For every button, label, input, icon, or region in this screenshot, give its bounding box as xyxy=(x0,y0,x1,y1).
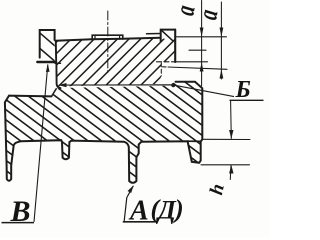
svg-text:В: В xyxy=(10,195,31,228)
svg-text:Д: Д xyxy=(156,196,177,225)
central boss on top surface xyxy=(92,35,123,39)
vertical centerline of boss (dash-dot) xyxy=(107,11,109,73)
arrowhead of leader B pointing left xyxy=(59,83,67,87)
section hatching of upper hub part (45deg slash lines) xyxy=(0,30,219,100)
dimension line of gap "a" no.2 xyxy=(220,2,222,79)
step connector between flange surface and hub wall xyxy=(52,89,57,97)
extension line from step plane (solid part) xyxy=(176,61,208,63)
underline of label A(D) xyxy=(123,221,158,223)
dimension line of gap "a" no.1 xyxy=(201,1,203,87)
leader line of label B (to step wall) xyxy=(59,85,234,97)
arrowhead down, dimension h xyxy=(229,130,233,139)
arrowhead of leader V pointing up xyxy=(46,64,50,72)
arrowhead of leader A(D) pointing up-right xyxy=(128,185,134,193)
hidden edge below right tab xyxy=(160,63,162,76)
extension line from step plane (dashed part over hub) xyxy=(157,61,177,63)
bend dot on leader of label B xyxy=(171,83,175,87)
groove lip bar under left tab xyxy=(37,61,55,63)
dimension line of tooth height h xyxy=(230,101,231,180)
groove lip step xyxy=(55,62,61,64)
svg-text:а: а xyxy=(193,7,224,22)
svg-text:): ) xyxy=(173,195,184,224)
underline of label V xyxy=(2,222,35,224)
right retaining ring tab outline xyxy=(161,30,175,42)
section hatching of lower flange part (backslash lines) xyxy=(0,70,320,232)
boss end ticks xyxy=(95,35,120,39)
arrowhead up, dimension a no.1 xyxy=(200,62,204,71)
arrowhead down, dimension a no.2 xyxy=(220,28,224,37)
extension line from lower ledge (solid part) xyxy=(168,67,227,69)
svg-text:h: h xyxy=(206,182,229,197)
bottom surface line across right tooth root xyxy=(188,140,201,142)
section hatching of left retaining ring tab xyxy=(39,33,55,62)
arrowhead up, dimension h xyxy=(229,165,233,174)
lower flange outline with spline teeth xyxy=(5,82,202,183)
right edge of upper hub xyxy=(174,30,176,62)
short extension line at mid step xyxy=(189,49,206,51)
leader line of label V (to groove lip) xyxy=(34,65,48,222)
left retaining ring tab outline xyxy=(40,30,55,58)
svg-text:Б: Б xyxy=(235,77,251,103)
extension line from boss top level xyxy=(177,36,227,38)
arrowhead up, dimension a no.2 xyxy=(220,69,224,78)
thin ledge edge left of right tab xyxy=(147,33,161,35)
extension line from lower ledge (dashed part) xyxy=(163,66,169,68)
leader line of label A(D) (to middle tooth tip) xyxy=(124,186,133,221)
svg-text:А: А xyxy=(128,196,149,227)
arrowhead down, dimension a no.1 xyxy=(200,28,204,37)
underline of label B xyxy=(230,99,264,101)
extension lines for h xyxy=(201,139,250,165)
left edge of upper hub with step wall and fillet xyxy=(56,41,61,88)
top surface of upper hub with step ledge at right xyxy=(56,38,161,41)
section hatching of right retaining ring tab xyxy=(161,30,175,43)
